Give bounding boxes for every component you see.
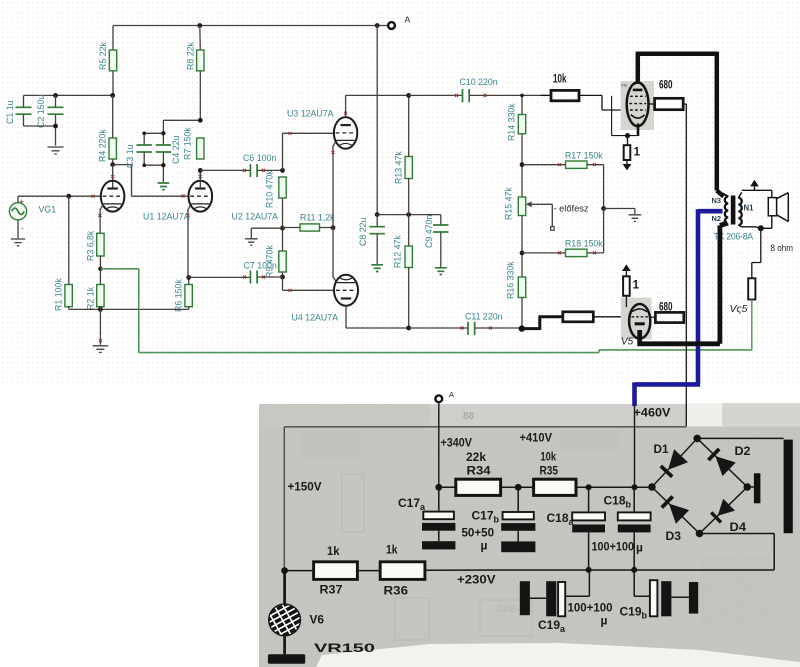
wire: tube2 anode lead [199,170,201,187]
wire: U3 anode to R13 node [346,95,409,117]
node: junction right of pot / ground [601,206,606,211]
wire: R18 leads [522,209,604,253]
node: junction R13 top [406,93,411,98]
node: big junction C11/R16/grid stopper [519,325,525,331]
node: junction C6 / R10 top [280,168,285,173]
capacitor C1 [5,95,32,126]
svg-text:+: + [20,197,25,206]
diode D3 [662,496,689,543]
node: speaker bottom junction [758,225,764,231]
svg-text:C11 220n: C11 220n [465,312,503,322]
capacitor C18a [547,487,606,570]
wire: R4 branch [112,95,114,164]
wire: R34 to R35 [501,486,534,488]
ground below 1 (arrow) [623,160,632,170]
pin cross ground stub [99,339,102,342]
capacitor C8 [358,215,385,264]
svg-text:µ: µ [601,614,608,628]
node: junction C8 top [375,212,380,217]
transformer secondary N1 [738,192,754,227]
transformer TK 206-8A primary [712,194,729,227]
pin cross U2 grid [182,195,185,198]
wire: 10k to upper tube grid [579,95,629,110]
wire: node B1 horizontal [24,94,113,96]
resistor R9 [265,245,287,278]
svg-text:R13 47k: R13 47k [394,151,404,184]
wire: U3 cathode to U4 cathode [333,140,337,282]
wire: B+ top rail [113,25,387,27]
svg-text:N1: N1 [744,204,755,213]
node: junction R9 bottom / C7 [280,275,285,280]
capacitor C2 [36,95,64,128]
wire: R10 bottom to node [282,198,284,228]
svg-text:VR150: VR150 [314,641,376,655]
pin crosses U2 [187,175,202,217]
pin crosses C7 [243,276,265,279]
node: junction R15/R18/R16 [520,251,525,256]
node: junction R13/R12/C9 [406,212,411,217]
wire: 680 right vertical down [683,104,686,426]
resistor 680 (lower) [650,300,684,323]
capacitor C10 [409,77,551,102]
resistor R7 [183,127,205,160]
wire: tube2 cathode lead [188,204,191,278]
node: small dot R14 top [520,94,524,98]
svg-text:A: A [405,15,411,25]
wire: C3-C4 top link [144,120,200,133]
potentiometer R15 [504,187,555,231]
svg-text:U1 12AU7A: U1 12AU7A [143,212,190,222]
pin cross U3 grid [289,132,292,135]
resistor R17 [565,151,603,169]
wire: C3-C4 bottom link [144,165,163,182]
resistor R2 [86,285,105,311]
svg-text:R4 220k: R4 220k [98,129,108,162]
svg-text:50+50: 50+50 [462,526,495,540]
wire: R1 top lead [68,196,70,284]
wire: bridge right to plate bar [747,486,754,488]
triode U1 (tube1) [101,181,125,212]
svg-text:C4 22u: C4 22u [171,136,181,164]
wire: cathode ground rail [69,307,189,310]
wire: blue B+ wire [635,209,723,406]
svg-text:Vς5: Vς5 [730,303,748,315]
svg-text:TN: TN [621,83,627,88]
diode D1 [654,442,689,477]
node: junction R4 bottom / U1 anode [110,162,115,167]
svg-text:- előfesz: - előfesz [554,204,589,214]
node: junction +150 rail left [281,567,288,574]
wire: main vertical x377 [376,26,378,215]
ground below R2 [93,346,109,353]
node: junction C4 bottom [161,163,165,167]
node: small dot C3 bottom [142,163,146,167]
wire: R6 top / tube2 cathode node [188,277,190,284]
capacitor C9 [424,215,449,267]
node: bridge bottom corner [696,530,704,538]
wire: R16 bottom to C11 node [521,298,523,329]
wire: R8 branch [199,26,202,121]
wire: R15 to R18 node [521,216,523,278]
wire: ground stub below R2 [99,307,101,345]
svg-text:D2: D2 [735,444,751,458]
svg-text:8 ohm: 8 ohm [771,243,794,253]
terminal A (bottom) [435,390,454,402]
resistor R16 [506,261,526,299]
resistor R34 [439,450,501,495]
wire: R11 leads [283,227,334,229]
pin crosses R18 [558,251,596,254]
svg-text:R18 150k: R18 150k [565,239,603,249]
node: feedback junction R3/R2 [98,267,102,271]
svg-text:+150V: +150V [288,480,322,494]
capacitor C6 [243,153,283,177]
node: small dot C3 top [142,132,146,136]
source VG1 [9,197,56,234]
ground at bias node [629,215,642,222]
triode U4 (inverted) [292,275,359,323]
wire: U3 grid line [283,133,335,170]
svg-text:R37: R37 [320,583,343,597]
ground below C4 (green) [158,183,170,190]
capacitor C17b [462,487,536,552]
svg-text:C3 1u: C3 1u [125,144,135,168]
svg-text:+460V: +460V [634,406,671,420]
wire: thick cathode/anode rail (black) [637,223,727,344]
resistor V5 (feedback) [730,278,756,315]
wire: U4 grid line [283,277,335,290]
pin crosses U1 [99,175,115,217]
svg-text:V6: V6 [310,613,325,627]
svg-text:V5: V5 [621,337,634,348]
svg-text:10k: 10k [553,72,567,86]
svg-text:A: A [449,390,454,399]
speaker [768,193,788,222]
capacitor C4 [156,133,181,165]
wire: U1 cathode lead [100,204,104,233]
resistor R8 [186,42,205,71]
node: bridge right corner [744,483,752,491]
capacitor C3 [125,133,152,168]
wire: thick anode lead to transformer (black) [636,52,724,197]
wire: R3 to R2 [99,256,101,285]
resistor R18 [565,239,603,257]
svg-text:+410V: +410V [520,431,553,445]
wire: U1 anode to U2 grid [113,165,190,197]
svg-text:VG1: VG1 [39,205,57,215]
resistor R11 [300,213,335,232]
node: junction R2 bottom [98,307,103,312]
svg-text:U2 12AU7A: U2 12AU7A [232,212,279,222]
node: junction R14/R17 [520,162,525,167]
transformer core [731,196,736,225]
resistor R13 [394,151,413,184]
node: junction A/R34/C17a [435,484,442,491]
svg-text:R11 1,2k: R11 1,2k [300,213,335,223]
pin crosses C10 [455,94,487,97]
resistor R5 [98,42,117,71]
svg-text:U3 12AU7A: U3 12AU7A [287,109,334,119]
svg-text:10k: 10k [541,450,557,464]
svg-text:R16 330k: R16 330k [506,261,516,299]
svg-text:µ: µ [636,541,643,555]
pin cross U1 grid [92,195,95,198]
wire: to feedback resistor [752,228,761,278]
resistor 1 (upper cathode) [624,136,641,160]
node: junction R12 bottom / C11 [406,326,411,331]
wire: bridge top to transformer bar [697,437,783,439]
diode D4 [711,499,746,534]
node: junction C4 top [161,131,165,135]
wire: secondary bottom to speaker bottom [742,216,772,229]
node: junction VG1/R1 [66,194,71,199]
svg-text:R15 47k: R15 47k [504,187,514,220]
tube V5 (lower output) [621,298,652,348]
wire: V5 resistor to feedback (green) [751,300,753,350]
svg-text:C6 100n: C6 100n [243,153,276,163]
pin crosses C6 [243,169,265,172]
wire: +460 vertical [634,405,636,487]
pin crosses R17 [558,163,596,166]
node: rail junction at x377 [375,23,380,28]
svg-text:C10 220n: C10 220n [460,77,498,87]
wire: to ground at bias node [604,209,635,215]
node: junction below C2 [53,124,58,129]
svg-text:U4 12AU7A: U4 12AU7A [292,313,339,323]
pin crosses C11 [461,327,493,330]
wire: scan box lines at upper tube [612,96,638,136]
svg-text:R12 47k: R12 47k [393,235,403,268]
wire: R9 leads [282,228,284,277]
wire: thick link to lower grid stopper [522,317,563,330]
node: junction R10/R11/R9 [280,226,285,231]
node: rail junction above R8 [197,23,202,28]
node: junction C19b on rail [631,567,637,573]
triode U3 [287,109,357,149]
node: junction R5/R4 [110,93,115,98]
svg-text:R7 150k: R7 150k [183,127,193,160]
wire: R14 column [521,95,523,197]
svg-text:R2 1k: R2 1k [86,286,96,310]
capacitor C19a [520,570,613,634]
svg-text:100+100: 100+100 [592,540,635,554]
svg-text:1: 1 [634,145,641,159]
svg-text:R8 22k: R8 22k [186,42,196,70]
wire: R12 leads [408,215,410,328]
svg-text:R6 150k: R6 150k [174,279,184,312]
svg-text:-: - [21,224,24,233]
svg-text:R5 22k: R5 22k [98,42,108,70]
resistor R4 [98,129,117,162]
svg-text:C9 470n: C9 470n [424,215,434,248]
resistor 1 (lower cathode) [622,264,640,307]
wire: node link 377-441 [377,214,441,216]
pin cross U4 grid [289,289,292,292]
capacitor C17a [398,487,455,549]
wire: 230V rail [285,569,775,572]
diode D2 [708,444,750,476]
tube V6 VR150 [264,571,376,664]
resistor R36 [380,543,425,598]
svg-text:C1 1u: C1 1u [5,100,15,124]
ground below C9 (green) [435,268,447,275]
svg-text:C2 150u: C2 150u [36,95,46,128]
wire: VG1 ground lead [17,220,19,238]
svg-text:R1 100k: R1 100k [54,278,64,311]
node: junction R6 top [186,275,191,280]
wire: VG1 to U1 grid [18,196,101,203]
ground at secondary (arrow up) [750,180,759,191]
svg-text:680: 680 [659,300,673,314]
node: junction C17b [515,484,522,491]
wire: C1-C2 bottom link [24,126,56,146]
wire: R17 leads [522,165,604,209]
resistor R1 [54,278,73,311]
wire: U4 anode line [346,306,409,328]
scanned paper background [259,403,800,667]
node: junction above C2 [53,93,58,98]
node: junction R7 bottom [198,168,203,173]
svg-text:D4: D4 [730,520,747,534]
wire: stopper to lower tube grid [593,316,629,318]
plate bar (small) [754,473,761,503]
wire: R5 branch [112,26,114,96]
wire: bridge bottom to rail [700,534,775,570]
svg-text:C7 100n: C7 100n [244,261,277,271]
ground below C8 (green) [371,265,383,272]
resistor R3 [86,230,105,261]
resistor R14 [507,103,526,141]
triode U2 (tube2) [189,181,213,212]
wire: R13 leads [408,95,410,214]
svg-text:R17 150k: R17 150k [565,151,603,161]
svg-text:D3: D3 [666,529,682,543]
capacitor C7 [244,261,283,284]
ground at U2 node [245,239,258,245]
wire: feedback (green) [100,269,751,353]
svg-text:C8 22u: C8 22u [358,218,368,246]
svg-text:µ: µ [481,539,488,553]
svg-text:1k: 1k [327,544,340,558]
resistor R35 [534,450,576,496]
wire: A to +340 node [438,402,440,487]
resistor R12 [393,235,413,268]
svg-text:680: 680 [659,78,673,92]
resistor grid stopper (lower, unlabeled) [563,312,594,322]
node: junction C19a on rail [586,567,592,573]
transformer bar (big) [784,440,793,534]
capacitor C18b [592,487,651,570]
resistor R6 [174,279,193,312]
pin crosses U3 [332,112,348,154]
wire: 10k grid feed [541,94,552,96]
terminal A (top) [388,15,410,29]
svg-text:R34: R34 [467,464,491,478]
diode bridge wires [652,438,747,533]
node: bridge left corner [648,483,656,491]
capacitor C11 [409,312,522,336]
svg-text:100+100: 100+100 [568,601,613,615]
wire: secondary top to speaker [742,190,772,197]
capacitor C19b [620,570,699,621]
svg-text:D1: D1 [654,442,669,456]
wire: ground stub left of R10 node [251,228,282,238]
svg-text:1k: 1k [386,543,398,557]
node: bridge top corner [693,435,701,443]
node: junction C18a [586,484,592,490]
svg-text:N2: N2 [712,214,721,223]
svg-text:R14 330k: R14 330k [507,103,517,141]
resistor 10k (grid stopper upper) [551,72,579,101]
wire: R6 to C7 [189,276,251,278]
svg-text:+230V: +230V [457,573,496,587]
resistor R37 [314,544,358,597]
svg-text:R35: R35 [540,464,559,478]
svg-text:R3 6,8k: R3 6,8k [86,230,96,261]
wire: R7 bottom to C6 [200,169,250,171]
wire: U1 anode lead [112,165,114,188]
svg-text:N3: N3 [712,196,721,205]
scan page border [284,427,686,571]
resistor 680 (upper) [648,78,683,110]
ground below VG1 [11,239,25,246]
wire: R35 to bridge [576,486,652,488]
svg-text:R10 470k: R10 470k [265,170,275,208]
node: upper tube cathode junction [625,133,630,138]
svg-text:+340V: +340V [441,436,473,450]
resistor R10 [265,170,287,208]
tube V (upper output) [621,81,655,136]
ground below C2 [48,147,64,154]
svg-text:22k: 22k [466,450,486,464]
svg-text:R36: R36 [384,584,409,598]
node: junction R11 right / cathode line [331,225,336,230]
node: junction R8/R7 [198,118,203,123]
svg-text:1: 1 [633,278,640,292]
node: junction C18b / +460 [632,484,638,490]
